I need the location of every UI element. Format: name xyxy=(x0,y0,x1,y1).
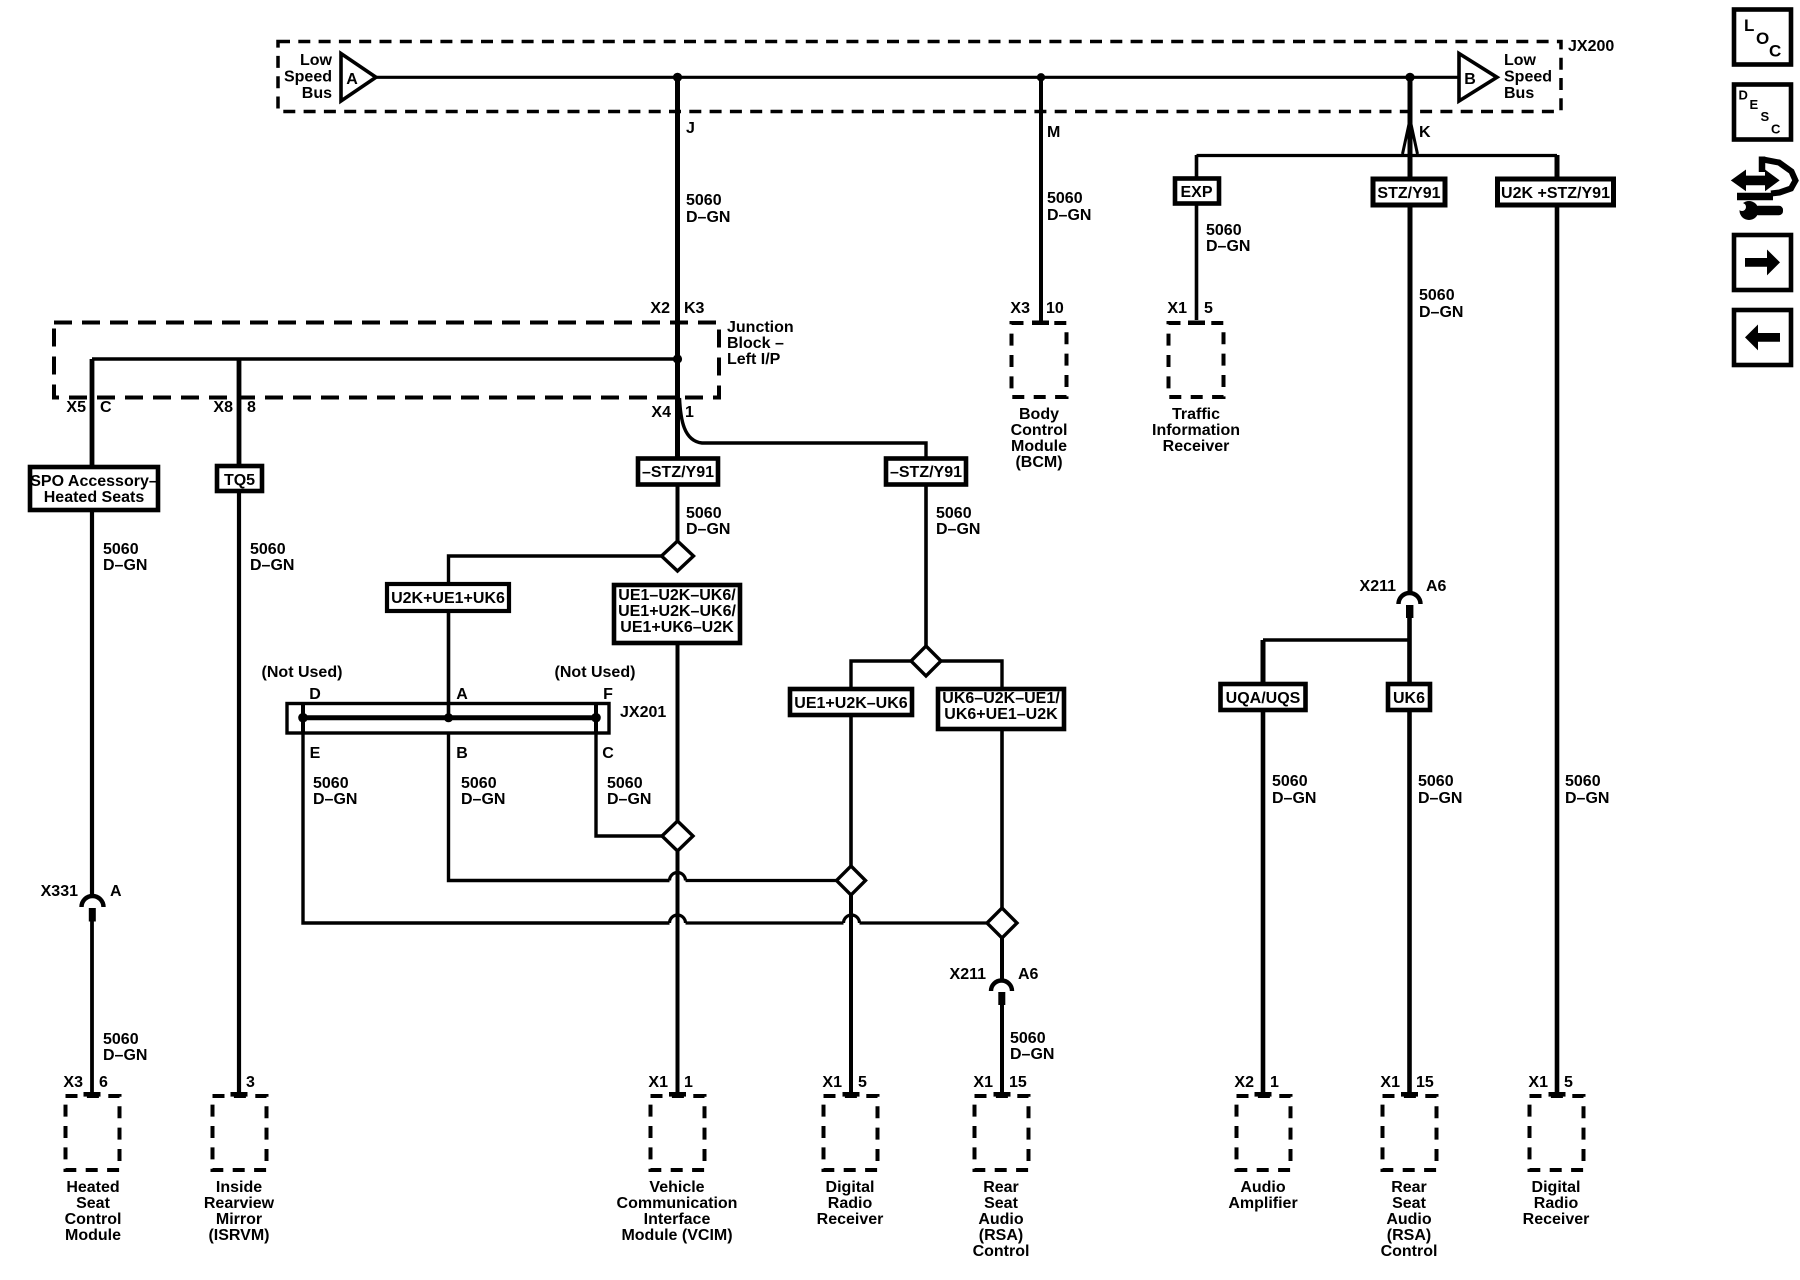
svg-text:D–GN: D–GN xyxy=(1419,304,1463,321)
inline connector X211 A6 (right) xyxy=(1399,593,1421,618)
wire name box UK6 xyxy=(1388,684,1430,710)
connector JX201 outer box xyxy=(287,703,609,733)
splice diamond (above RSA control) xyxy=(987,908,1017,938)
svg-text:5060: 5060 xyxy=(1418,773,1454,790)
wire name box UQA/UQS xyxy=(1221,684,1306,710)
svg-text:5060: 5060 xyxy=(607,775,643,792)
node K junction dot xyxy=(1405,73,1414,82)
svg-text:5060: 5060 xyxy=(1010,1030,1046,1047)
wire split right to UK6-U2K-UE1 xyxy=(941,661,1002,688)
svg-text:X2: X2 xyxy=(1234,1074,1254,1091)
svg-text:Audio: Audio xyxy=(1386,1211,1432,1228)
svg-text:Information: Information xyxy=(1152,422,1240,439)
wire below U2K+STZ/Y91 box to digital radio receiver xyxy=(1555,205,1560,1093)
wire UQA drop xyxy=(1261,640,1266,683)
svg-text:Inside: Inside xyxy=(216,1179,262,1196)
node M junction dot xyxy=(1037,73,1045,81)
svg-text:Seat: Seat xyxy=(1392,1195,1426,1212)
svg-text:Left I/P: Left I/P xyxy=(727,351,781,368)
svg-text:5: 5 xyxy=(1564,1074,1573,1091)
wire U2K+STZ/Y91 drop from branch xyxy=(1555,155,1560,179)
arrow up at K xyxy=(1403,120,1418,155)
svg-text:Radio: Radio xyxy=(828,1195,873,1212)
svg-text:UQA/UQS: UQA/UQS xyxy=(1226,690,1301,707)
svg-text:UK6: UK6 xyxy=(1393,690,1425,707)
svg-text:X211: X211 xyxy=(1360,578,1397,595)
svg-text:UE1+U2K–UK6: UE1+U2K–UK6 xyxy=(794,695,907,712)
wire below -STZ/Y91 right xyxy=(924,485,928,647)
svg-text:(ISRVM): (ISRVM) xyxy=(208,1227,269,1244)
svg-text:C: C xyxy=(100,399,112,416)
wire below -STZ/Y91 left xyxy=(676,485,680,542)
splice diamond (above digital radio receiver) xyxy=(837,866,866,895)
svg-text:D: D xyxy=(1739,88,1748,103)
wire split left to UE1+U2K-UK6 xyxy=(851,661,911,688)
terminal bar ISRVM xyxy=(231,1092,248,1097)
svg-text:Mirror: Mirror xyxy=(216,1211,262,1228)
connector Digital Radio Receiver dashed box xyxy=(824,1096,878,1170)
wire below X211 to UK6 and bottom xyxy=(1407,617,1412,1093)
svg-text:Receiver: Receiver xyxy=(1163,438,1230,455)
svg-text:Rearview: Rearview xyxy=(204,1195,275,1212)
svg-text:5060: 5060 xyxy=(103,1031,139,1048)
svg-text:D–GN: D–GN xyxy=(103,1047,147,1064)
svg-text:K: K xyxy=(1419,124,1431,141)
svg-text:5060: 5060 xyxy=(1419,287,1455,304)
svg-text:X5: X5 xyxy=(66,399,86,416)
svg-text:–STZ/Y91: –STZ/Y91 xyxy=(890,464,962,481)
svg-text:(RSA): (RSA) xyxy=(1387,1227,1431,1244)
terminal bar traffic receiver xyxy=(1188,321,1205,326)
svg-text:X211: X211 xyxy=(950,966,987,983)
svg-text:X1: X1 xyxy=(822,1074,842,1091)
icon DESC box xyxy=(1734,85,1791,140)
wire name box U2K +STZ/Y91 xyxy=(1498,179,1614,205)
wire X8 drop to TQ5 xyxy=(237,359,242,465)
svg-text:JX201: JX201 xyxy=(620,704,666,721)
svg-text:D–GN: D–GN xyxy=(936,521,980,538)
splice diamond (RSA split) xyxy=(911,646,941,676)
svg-text:X1: X1 xyxy=(1167,300,1187,317)
svg-text:6: 6 xyxy=(99,1074,108,1091)
node dot JX201 left xyxy=(298,713,308,723)
wire name box UE1+U2K-UK6 xyxy=(790,689,912,715)
terminal bar RSA right xyxy=(1401,1092,1418,1097)
svg-text:(Not Used): (Not Used) xyxy=(262,664,343,681)
svg-text:8: 8 xyxy=(247,399,256,416)
svg-text:UE1+U2K–UK6/: UE1+U2K–UK6/ xyxy=(618,603,736,620)
svg-text:L: L xyxy=(1744,16,1754,35)
node dot JX201 middle xyxy=(444,713,453,722)
wire X4 drop to -STZ/Y91 xyxy=(675,359,680,458)
connector Inside Rearview Mirror dashed box xyxy=(213,1096,267,1170)
wire below SPO box xyxy=(90,510,94,896)
svg-text:C: C xyxy=(1771,122,1781,137)
bus connector JX200 dashed box xyxy=(278,42,1561,112)
wire name box -STZ/Y91 (right) xyxy=(886,459,966,485)
connector Rear Seat Audio Control right dashed box xyxy=(1383,1096,1437,1170)
svg-text:10: 10 xyxy=(1046,300,1064,317)
wire name box SPO Accessory-Heated Seats xyxy=(30,467,158,510)
icon vehicle data (double arrow, hook, wrench) xyxy=(1733,157,1796,221)
svg-text:5060: 5060 xyxy=(1565,773,1601,790)
svg-text:D: D xyxy=(309,686,321,703)
svg-text:A: A xyxy=(110,883,122,900)
svg-text:3: 3 xyxy=(246,1074,255,1091)
wire below UK6-U2K-UE1 xyxy=(1000,729,1004,909)
svg-text:Seat: Seat xyxy=(76,1195,110,1212)
svg-text:Rear: Rear xyxy=(1391,1179,1427,1196)
svg-text:D–GN: D–GN xyxy=(103,557,147,574)
inline connector X331 A xyxy=(82,896,104,921)
icon left arrow box xyxy=(1734,310,1791,365)
node J junction dot xyxy=(673,73,682,82)
svg-text:5: 5 xyxy=(1204,300,1213,317)
svg-text:Amplifier: Amplifier xyxy=(1228,1195,1297,1212)
svg-text:X1: X1 xyxy=(648,1074,668,1091)
icon LOC box xyxy=(1734,10,1791,65)
svg-text:D–GN: D–GN xyxy=(1272,790,1316,807)
svg-text:5060: 5060 xyxy=(1047,190,1083,207)
svg-text:D–GN: D–GN xyxy=(313,791,357,808)
icon right arrow box xyxy=(1734,235,1791,290)
svg-text:Heated Seats: Heated Seats xyxy=(44,489,145,506)
svg-text:D–GN: D–GN xyxy=(250,557,294,574)
svg-text:Audio: Audio xyxy=(1240,1179,1286,1196)
connector Audio Amplifier dashed box xyxy=(1237,1096,1291,1170)
wire below triple box xyxy=(676,643,680,822)
svg-text:B: B xyxy=(1464,71,1476,88)
svg-text:U2K +STZ/Y91: U2K +STZ/Y91 xyxy=(1501,185,1610,202)
connector Digital Radio Receiver right dashed box xyxy=(1530,1096,1584,1170)
svg-text:Bus: Bus xyxy=(302,85,332,102)
svg-text:Module (VCIM): Module (VCIM) xyxy=(621,1227,732,1244)
svg-text:Communication: Communication xyxy=(617,1195,738,1212)
wire from U2K+UE1+UK6 down to JX201 pin A xyxy=(447,611,451,717)
svg-text:E: E xyxy=(1750,97,1759,112)
wire below splice to X211 xyxy=(1000,938,1004,979)
svg-text:Control: Control xyxy=(1381,1243,1438,1260)
svg-text:A: A xyxy=(456,686,468,703)
svg-text:Body: Body xyxy=(1019,406,1059,423)
wire below X331 xyxy=(90,921,94,1093)
wire K below STZ/Y91 xyxy=(1408,205,1413,592)
svg-text:E: E xyxy=(310,745,321,762)
svg-text:A6: A6 xyxy=(1018,966,1039,983)
svg-text:X3: X3 xyxy=(1010,300,1030,317)
svg-text:D–GN: D–GN xyxy=(607,791,651,808)
inline connector X211 A6 (middle) xyxy=(991,981,1012,1006)
svg-text:K3: K3 xyxy=(684,300,705,317)
svg-text:A6: A6 xyxy=(1426,578,1447,595)
wire C branch into splice xyxy=(596,733,662,836)
wire name box U2K+UE1+UK6 xyxy=(387,584,509,611)
svg-text:JX200: JX200 xyxy=(1568,38,1614,55)
svg-text:5060: 5060 xyxy=(461,775,497,792)
terminal bar DRR right xyxy=(1549,1092,1566,1097)
svg-text:Interface: Interface xyxy=(644,1211,711,1228)
splice diamond (above VCIM) xyxy=(662,821,693,851)
svg-text:15: 15 xyxy=(1009,1074,1027,1091)
svg-text:D–GN: D–GN xyxy=(686,209,730,226)
svg-text:5060: 5060 xyxy=(313,775,349,792)
svg-text:1: 1 xyxy=(684,1074,693,1091)
svg-text:M: M xyxy=(1047,124,1060,141)
wire name box TQ5 xyxy=(217,466,262,491)
wire junction block internal horizontal xyxy=(92,357,679,361)
svg-text:Traffic: Traffic xyxy=(1172,406,1220,423)
wire below splice to DRR xyxy=(849,895,853,1093)
terminal bar heated seat xyxy=(84,1092,101,1097)
svg-text:5060: 5060 xyxy=(103,541,139,558)
terminal bar BCM xyxy=(1032,321,1049,326)
svg-text:X1: X1 xyxy=(973,1074,993,1091)
connector Traffic Information Receiver dashed box xyxy=(1169,323,1224,397)
svg-text:Radio: Radio xyxy=(1534,1195,1579,1212)
svg-text:Control: Control xyxy=(973,1243,1030,1260)
svg-text:1: 1 xyxy=(685,404,694,421)
svg-text:C: C xyxy=(1769,42,1781,61)
svg-text:Digital: Digital xyxy=(1532,1179,1581,1196)
svg-text:D–GN: D–GN xyxy=(1418,790,1462,807)
connector Rear Seat Audio Control dashed box xyxy=(975,1096,1029,1170)
svg-text:U2K+UE1+UK6: U2K+UE1+UK6 xyxy=(391,590,505,607)
wire below EXP xyxy=(1195,204,1199,320)
svg-text:Control: Control xyxy=(1011,422,1068,439)
wire branch horizontal to UQA/UQS xyxy=(1263,638,1409,642)
svg-text:X2: X2 xyxy=(650,300,670,317)
svg-text:X1: X1 xyxy=(1528,1074,1548,1091)
svg-text:Speed: Speed xyxy=(1504,69,1552,86)
junction block left I/P dashed box xyxy=(54,323,719,398)
svg-text:(RSA): (RSA) xyxy=(979,1227,1023,1244)
svg-text:Low: Low xyxy=(1504,52,1537,69)
svg-text:X3: X3 xyxy=(63,1074,83,1091)
wire B drop and run to DRR splice (line A) xyxy=(449,733,837,881)
svg-text:Seat: Seat xyxy=(984,1195,1018,1212)
svg-text:O: O xyxy=(1756,29,1769,48)
svg-text:Low: Low xyxy=(300,52,333,69)
wire EXP drop xyxy=(1195,155,1199,178)
svg-text:–STZ/Y91: –STZ/Y91 xyxy=(642,464,714,481)
svg-text:5060: 5060 xyxy=(1206,222,1242,239)
svg-text:D–GN: D–GN xyxy=(1565,790,1609,807)
svg-text:F: F xyxy=(603,686,613,703)
svg-text:X8: X8 xyxy=(213,399,233,416)
wire J vertical 5060 D-GN xyxy=(675,77,680,359)
connector Heated Seat Control Module dashed box xyxy=(66,1096,120,1170)
svg-text:B: B xyxy=(456,745,468,762)
svg-text:5060: 5060 xyxy=(686,505,722,522)
svg-text:5060: 5060 xyxy=(250,541,286,558)
terminal bar VCIM xyxy=(669,1092,686,1097)
bus driver triangle B xyxy=(1459,54,1497,102)
svg-text:15: 15 xyxy=(1416,1074,1434,1091)
svg-text:5060: 5060 xyxy=(936,505,972,522)
svg-text:5: 5 xyxy=(858,1074,867,1091)
svg-text:STZ/Y91: STZ/Y91 xyxy=(1377,185,1440,202)
wire below UQA/UQS to audio amp xyxy=(1261,710,1266,1093)
svg-text:5060: 5060 xyxy=(1272,773,1308,790)
svg-text:Audio: Audio xyxy=(978,1211,1024,1228)
svg-text:J: J xyxy=(686,120,695,137)
wire name box -STZ/Y91 (left) xyxy=(638,459,718,485)
svg-text:Vehicle: Vehicle xyxy=(649,1179,704,1196)
wire E drop and run to RSA splice (line B) xyxy=(303,733,987,923)
svg-text:Speed: Speed xyxy=(284,69,332,86)
svg-text:1: 1 xyxy=(1270,1074,1279,1091)
svg-text:C: C xyxy=(602,745,614,762)
connector VCIM dashed box xyxy=(651,1096,705,1170)
svg-text:(Not Used): (Not Used) xyxy=(555,664,636,681)
svg-text:A: A xyxy=(346,71,358,88)
node junction dot X2/X4 xyxy=(673,354,682,363)
node dot JX201 right xyxy=(591,713,601,723)
wire X5 drop to SPO xyxy=(90,359,95,466)
wire name box UE1-U2K-UK6 (three line) xyxy=(614,585,740,643)
svg-text:D–GN: D–GN xyxy=(686,521,730,538)
svg-text:D–GN: D–GN xyxy=(1010,1046,1054,1063)
wire M vertical 5060 D-GN xyxy=(1039,77,1043,321)
svg-text:Module: Module xyxy=(1011,438,1067,455)
svg-text:5060: 5060 xyxy=(686,192,722,209)
svg-text:Module: Module xyxy=(65,1227,121,1244)
svg-text:EXP: EXP xyxy=(1180,184,1212,201)
svg-text:Heated: Heated xyxy=(66,1179,119,1196)
wire branch horizontal at y155 xyxy=(1197,154,1558,157)
bus driver triangle A xyxy=(341,54,376,102)
svg-text:Control: Control xyxy=(65,1211,122,1228)
JX201 internal bus bar xyxy=(302,715,597,720)
svg-text:UK6+UE1–U2K: UK6+UE1–U2K xyxy=(944,706,1058,723)
wire low speed bus horizontal xyxy=(375,76,1459,79)
wire name box STZ/Y91 xyxy=(1373,179,1445,205)
splice diamond (below left -STZ/Y91) xyxy=(662,541,694,571)
svg-text:Block –: Block – xyxy=(727,335,784,352)
terminal bar audio amplifier xyxy=(1255,1092,1272,1097)
svg-text:D–GN: D–GN xyxy=(461,791,505,808)
svg-text:Rear: Rear xyxy=(983,1179,1019,1196)
wire K vertical thick xyxy=(1408,77,1413,177)
svg-text:SPO Accessory–: SPO Accessory– xyxy=(30,473,158,490)
connector Body Control Module dashed box xyxy=(1012,323,1067,397)
svg-text:TQ5: TQ5 xyxy=(224,472,255,489)
wire branch left from splice to U2K+UE1+UK6 xyxy=(449,556,662,583)
svg-text:Receiver: Receiver xyxy=(1523,1211,1590,1228)
svg-text:UE1–U2K–UK6/: UE1–U2K–UK6/ xyxy=(618,587,736,604)
svg-text:Bus: Bus xyxy=(1504,85,1534,102)
wire below UE1+U2K-UK6 xyxy=(849,715,853,867)
terminal bar DRR xyxy=(843,1092,860,1097)
wire below X211 to RSA control xyxy=(1000,1005,1004,1093)
terminal bar RSA xyxy=(994,1092,1011,1097)
svg-text:X1: X1 xyxy=(1380,1074,1400,1091)
svg-text:Receiver: Receiver xyxy=(817,1211,884,1228)
svg-text:UK6–U2K–UE1/: UK6–U2K–UE1/ xyxy=(942,690,1060,707)
svg-text:X4: X4 xyxy=(651,404,671,421)
wire below splice to VCIM xyxy=(676,851,680,1093)
svg-text:(BCM): (BCM) xyxy=(1015,454,1062,471)
svg-text:D–GN: D–GN xyxy=(1047,207,1091,224)
svg-text:S: S xyxy=(1761,109,1770,124)
wire curved branch from X4 to right -STZ/Y91 xyxy=(680,398,927,458)
svg-text:Digital: Digital xyxy=(826,1179,875,1196)
svg-text:X331: X331 xyxy=(41,883,78,900)
svg-text:D–GN: D–GN xyxy=(1206,238,1250,255)
svg-text:Junction: Junction xyxy=(727,319,794,336)
wire name box UK6-U2K-UE1/UK6+UE1-U2K xyxy=(938,689,1064,729)
svg-text:UE1+UK6–U2K: UE1+UK6–U2K xyxy=(620,619,734,636)
wire name box EXP xyxy=(1175,179,1219,204)
wire below TQ5 box xyxy=(237,491,241,1093)
